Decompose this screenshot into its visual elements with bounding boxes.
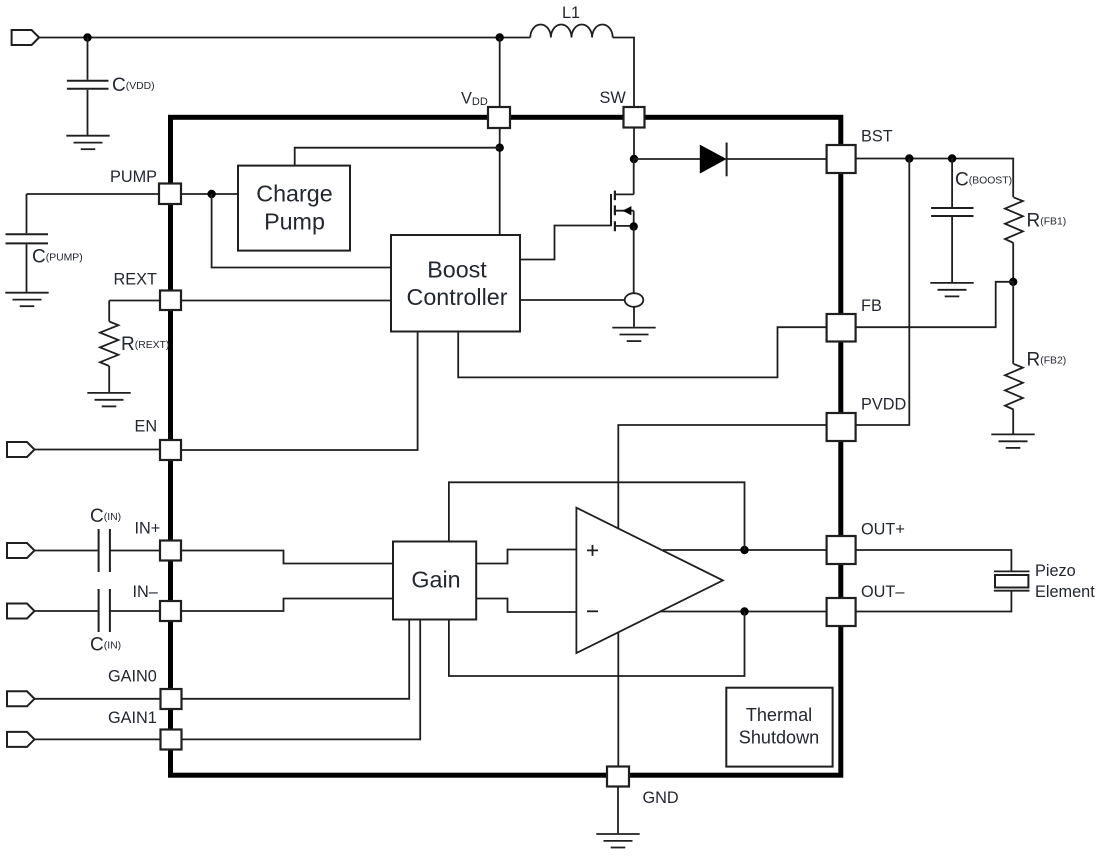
capacitor C(IN) bottom xyxy=(99,589,110,632)
node C(BOOST) junction xyxy=(948,154,956,162)
input terminal GAIN1 xyxy=(7,732,35,747)
node source junction xyxy=(630,222,638,230)
capacitor C(VDD) xyxy=(67,81,109,89)
wire diode anode xyxy=(634,158,701,160)
wire drain rail xyxy=(633,159,635,194)
svg-text:C(BOOST): C(BOOST) xyxy=(955,170,1012,191)
svg-text:Thermal: Thermal xyxy=(746,705,812,725)
svg-text:IN–: IN– xyxy=(133,583,159,601)
svg-text:R(REXT): R(REXT) xyxy=(121,334,169,355)
pin IN- xyxy=(160,601,181,621)
piezo element load xyxy=(994,571,1030,590)
node VDD internal junction xyxy=(496,144,504,152)
wire C(BOOST) branch xyxy=(951,159,953,283)
wire IN- net xyxy=(35,599,394,612)
svg-text:R(FB1): R(FB1) xyxy=(1027,211,1067,232)
block thermal shutdown xyxy=(726,688,832,767)
op-amp U1 xyxy=(576,508,723,653)
wire diode cathode to BST xyxy=(726,158,827,160)
svg-text:OUT–: OUT– xyxy=(861,583,905,601)
pin REXT xyxy=(160,291,181,311)
node OUT+ feedback junction xyxy=(740,546,748,554)
input terminal VDD xyxy=(12,30,39,45)
node OUT- feedback junction xyxy=(740,607,748,615)
wire source to sense xyxy=(633,227,635,294)
wire BST output rail xyxy=(856,159,1013,198)
pin BST xyxy=(827,145,856,173)
wire L1 to SW xyxy=(613,38,634,108)
ground R(FB2) xyxy=(991,434,1034,448)
input terminal IN+ xyxy=(7,543,35,558)
wire PUMP net xyxy=(27,193,239,195)
svg-text:Gain: Gain xyxy=(411,567,460,593)
svg-text:Piezo: Piezo xyxy=(1035,562,1076,580)
pin OUT- xyxy=(827,598,856,626)
resistor R(REXT) xyxy=(100,322,118,367)
svg-text:IN+: IN+ xyxy=(135,520,161,538)
ground R(REXT) xyxy=(87,393,130,407)
wire feedback top wrap xyxy=(449,482,745,550)
svg-text:GAIN0: GAIN0 xyxy=(108,668,157,686)
svg-text:REXT: REXT xyxy=(114,271,157,289)
inductor L1 xyxy=(530,24,612,37)
transistor Q1 boost FET xyxy=(611,191,634,232)
wire PVDD to amplifier xyxy=(618,425,826,529)
input terminal EN xyxy=(7,442,35,457)
wire gate drive xyxy=(520,226,611,260)
wire PUMP to boost controller xyxy=(212,194,391,268)
wire VDD top rail xyxy=(39,37,530,39)
wire EN net xyxy=(35,332,418,451)
capacitor C(IN) top xyxy=(99,529,110,572)
wire feedback bottom wrap xyxy=(449,612,745,677)
svg-text:C(PUMP): C(PUMP) xyxy=(32,247,83,268)
svg-text:Element: Element xyxy=(1035,583,1095,601)
svg-text:BST: BST xyxy=(861,128,893,146)
svg-text:Controller: Controller xyxy=(407,284,508,310)
pin SW xyxy=(624,107,645,128)
wire sense input xyxy=(520,299,625,301)
wire REXT net xyxy=(109,300,391,302)
op-amp minus input mark xyxy=(587,610,598,612)
wire GND pin to ground xyxy=(617,787,619,834)
ground C(PUMP) xyxy=(5,293,48,307)
svg-text:Charge: Charge xyxy=(256,180,332,206)
pin PUMP xyxy=(159,184,181,205)
wire VDD pin drop xyxy=(499,38,501,236)
block gain xyxy=(393,542,476,620)
ground source sense xyxy=(612,328,655,342)
input terminal IN- xyxy=(7,604,35,619)
node VDD supply junction xyxy=(83,33,91,41)
diode D1 xyxy=(700,146,725,173)
wire FB sense xyxy=(856,282,1013,327)
block charge pump xyxy=(238,166,350,251)
node SW diode junction xyxy=(630,155,638,163)
wire GAIN1 net xyxy=(35,620,421,740)
wire gain to minus input xyxy=(476,599,576,613)
wire R(REXT) branch xyxy=(108,301,110,393)
svg-text:OUT+: OUT+ xyxy=(861,520,905,538)
resistor R(FB2) xyxy=(1005,364,1023,410)
svg-text:PUMP: PUMP xyxy=(110,168,157,186)
node VDD pin junction xyxy=(496,33,504,41)
svg-text:VDD: VDD xyxy=(461,89,488,108)
svg-text:Boost: Boost xyxy=(427,256,487,282)
svg-text:C(IN): C(IN) xyxy=(90,506,121,527)
resistor R(FB1) xyxy=(1005,197,1023,243)
pin PVDD xyxy=(827,413,856,441)
capacitor C(PUMP) xyxy=(6,234,49,243)
svg-text:C(IN): C(IN) xyxy=(90,635,121,656)
block boost controller xyxy=(391,235,520,332)
svg-text:Shutdown: Shutdown xyxy=(739,727,819,747)
capacitor C(BOOST) xyxy=(931,208,973,216)
wire C(PUMP) branch xyxy=(26,194,28,292)
pin OUT+ xyxy=(827,536,856,564)
ground GND pin xyxy=(596,834,639,848)
pin GND xyxy=(607,767,629,787)
svg-text:C(VDD): C(VDD) xyxy=(112,75,155,96)
svg-text:SW: SW xyxy=(600,89,627,107)
pin VDD xyxy=(488,107,510,128)
op-amp plus input mark xyxy=(587,545,598,556)
pin FB xyxy=(827,314,856,342)
IC boundary xyxy=(171,117,841,775)
current sense O1 xyxy=(625,293,644,307)
svg-text:L1: L1 xyxy=(562,4,580,22)
svg-text:GAIN1: GAIN1 xyxy=(108,709,157,727)
wire GAIN0 net xyxy=(35,620,410,699)
pin EN xyxy=(160,440,181,460)
pin GAIN0 xyxy=(161,689,182,709)
wire amplifier to GND pin xyxy=(617,632,619,766)
wire R(FB1) to divider node xyxy=(1012,243,1014,282)
wire gain to plus input xyxy=(476,550,576,564)
svg-text:EN: EN xyxy=(135,417,158,435)
wire FB internal net xyxy=(458,327,826,377)
wire C(VDD) branch xyxy=(87,38,89,136)
svg-text:GND: GND xyxy=(643,789,679,807)
pin IN+ xyxy=(160,541,181,561)
svg-text:FB: FB xyxy=(861,297,882,315)
ground C(BOOST) xyxy=(930,283,973,297)
ground C(VDD) xyxy=(66,136,109,150)
svg-text:R(FB2): R(FB2) xyxy=(1027,350,1067,371)
node FB divider junction xyxy=(1009,278,1017,286)
wire sense to ground xyxy=(633,307,635,327)
wire BST to PVDD xyxy=(856,159,910,426)
wire OUT+ net xyxy=(663,550,1012,571)
wire divider to R(FB2) xyxy=(1012,282,1014,364)
wire SW to drain xyxy=(633,128,635,159)
node PUMP junction xyxy=(207,190,215,198)
wire R(FB2) to ground xyxy=(1012,410,1014,434)
pin GAIN1 xyxy=(161,730,182,750)
wire IN+ net xyxy=(35,551,394,564)
input terminal GAIN0 xyxy=(7,691,35,706)
wire OUT- net xyxy=(660,591,1012,611)
svg-text:Pump: Pump xyxy=(264,208,325,234)
wire charge pump supply xyxy=(295,148,500,166)
node BST-PVDD junction xyxy=(905,154,913,162)
svg-text:PVDD: PVDD xyxy=(861,395,906,413)
